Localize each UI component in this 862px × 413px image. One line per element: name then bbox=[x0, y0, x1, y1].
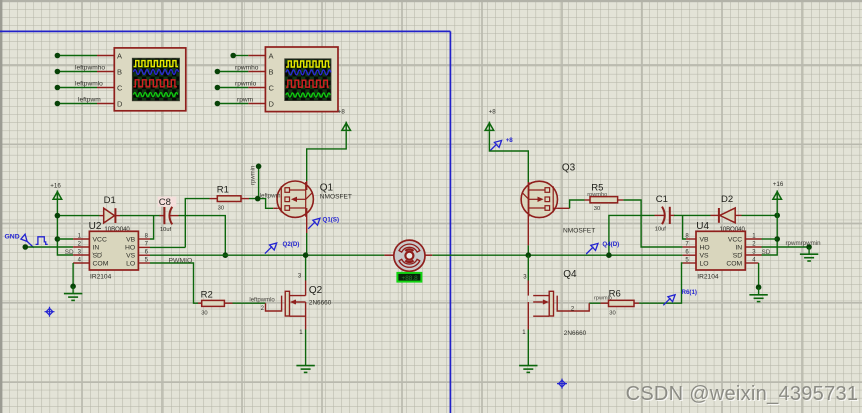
svg-text:VCC: VCC bbox=[728, 237, 742, 244]
U2 pin 3 bbox=[73, 254, 89, 256]
op-amp driver U2 IR2104 bbox=[89, 221, 139, 280]
oscilloscope right body bbox=[265, 47, 338, 112]
svg-text:VS: VS bbox=[126, 253, 136, 260]
U4 pin 5 LO bbox=[683, 262, 696, 264]
svg-text:A: A bbox=[269, 51, 274, 60]
svg-text:IN: IN bbox=[93, 245, 100, 252]
capacitor C1 bbox=[655, 194, 675, 233]
svg-text:GND: GND bbox=[5, 233, 20, 240]
wire D2 anode to +16 rail bbox=[742, 214, 778, 216]
junction dots scope left bbox=[55, 53, 61, 107]
wire +16 rail right bbox=[762, 200, 778, 255]
wire U2 COM to ground bbox=[72, 263, 74, 286]
svg-text:rpwmin: rpwmin bbox=[251, 166, 257, 185]
diode D1 10BQ040 bbox=[100, 195, 131, 233]
wire to scope B bbox=[57, 71, 97, 73]
svg-text:rpwm: rpwm bbox=[237, 96, 254, 103]
origin marker left bbox=[45, 307, 55, 317]
wire U4 IN to stub bbox=[762, 246, 810, 248]
svg-text:COM: COM bbox=[93, 261, 109, 268]
U2 pin 8 VB bbox=[138, 238, 150, 240]
wire D1 cathode to bootstrap node bbox=[120, 215, 161, 217]
transistor Q1 (NMOSFET) bbox=[277, 181, 352, 217]
U2 pin 5 LO bbox=[138, 262, 150, 264]
svg-text:D: D bbox=[117, 99, 123, 108]
wire R5 to U4 HO bbox=[623, 200, 682, 247]
svg-text:30: 30 bbox=[609, 311, 615, 317]
wire +8 to Q3 drain bbox=[489, 131, 528, 182]
svg-text:leftpwm: leftpwm bbox=[78, 97, 101, 104]
svg-text:Q3: Q3 bbox=[562, 163, 576, 174]
probe Q1(S) bbox=[308, 216, 339, 228]
svg-text:NMOSFET: NMOSFET bbox=[563, 228, 595, 235]
wire to scope A bbox=[57, 55, 97, 57]
resistor R2 bbox=[198, 289, 233, 316]
svg-text:Q4(D): Q4(D) bbox=[602, 241, 619, 248]
svg-text:D: D bbox=[269, 99, 275, 108]
svg-text:2N6660: 2N6660 bbox=[564, 330, 587, 337]
ground at IN stub bbox=[800, 247, 818, 261]
power terminal +16 (left) bbox=[50, 183, 61, 200]
svg-text:HO: HO bbox=[700, 245, 710, 252]
U4 pin 4 COM bbox=[745, 262, 758, 264]
power terminal +8 (right) bbox=[485, 108, 496, 131]
op-amp driver U4 IR2104 bbox=[696, 221, 745, 280]
svg-text:2N6660: 2N6660 bbox=[309, 299, 332, 306]
svg-text:Q4: Q4 bbox=[563, 269, 577, 280]
U4 pin 1 VCC bbox=[745, 238, 761, 240]
svg-text:Q1: Q1 bbox=[320, 183, 334, 194]
svg-text:VCC: VCC bbox=[93, 237, 107, 244]
svg-text:IR2104: IR2104 bbox=[90, 274, 112, 281]
svg-text:Q1(S): Q1(S) bbox=[323, 216, 340, 223]
wire R2 to Q2 gate bbox=[233, 302, 266, 304]
svg-text:NMOSFET: NMOSFET bbox=[320, 194, 352, 201]
motor rpm display bbox=[397, 273, 421, 282]
svg-text:D1: D1 bbox=[104, 195, 116, 206]
wire Q4 drain from main node bbox=[527, 255, 529, 280]
svg-text:B: B bbox=[117, 67, 122, 76]
svg-text:rpwmlo: rpwmlo bbox=[235, 80, 257, 87]
Q4 gate pin path bbox=[557, 296, 589, 311]
svg-text:HO: HO bbox=[125, 245, 135, 252]
diode D2 10BQ040 bbox=[711, 194, 746, 233]
svg-text:R6: R6 bbox=[609, 289, 621, 300]
U2 pin 1 bbox=[73, 238, 89, 240]
svg-text:IR2104: IR2104 bbox=[697, 274, 719, 281]
wire VCC row right bbox=[762, 238, 778, 240]
U4 pin 6 VS bbox=[683, 254, 696, 256]
transistor Q4 2N6660 bbox=[528, 269, 586, 337]
sheet border (blue) bbox=[0, 31, 450, 413]
wire HO riser to R1 bbox=[185, 199, 209, 248]
svg-text:B: B bbox=[269, 67, 274, 76]
probe R6(1) bbox=[663, 289, 697, 306]
left scope pin A bbox=[97, 55, 114, 57]
Q1 source pin + wire down to node bbox=[306, 208, 308, 233]
svg-text:+8: +8 bbox=[338, 108, 346, 115]
svg-text:VB: VB bbox=[700, 237, 710, 244]
wire R6 to Q4 gate bbox=[589, 302, 600, 304]
ground U4 COM bbox=[749, 287, 767, 301]
svg-text:Q2: Q2 bbox=[309, 285, 323, 296]
oscilloscope left body bbox=[114, 48, 186, 111]
svg-text:30: 30 bbox=[201, 311, 207, 317]
svg-text:LO: LO bbox=[126, 261, 135, 268]
wire VB riser bbox=[150, 216, 154, 239]
svg-text:leftpwmlo: leftpwmlo bbox=[75, 81, 103, 88]
Q1 drain pin bbox=[306, 181, 308, 190]
svg-text:30: 30 bbox=[594, 206, 600, 212]
right scope trace A (yellow) bbox=[286, 61, 330, 67]
ground Q4 source bbox=[519, 366, 537, 373]
wire generator to IN bbox=[25, 246, 73, 248]
U2 pin 2 bbox=[73, 246, 89, 248]
svg-text:D2: D2 bbox=[721, 194, 733, 205]
svg-text:U4: U4 bbox=[696, 221, 709, 232]
left scope trace A (yellow) bbox=[134, 61, 179, 67]
junction dot VCC row bbox=[55, 236, 61, 242]
U4 pin 7 HO bbox=[683, 246, 696, 248]
svg-text:C: C bbox=[269, 83, 275, 92]
svg-text:10uf: 10uf bbox=[160, 227, 171, 233]
wire VCC row bbox=[57, 238, 73, 240]
U2 pin 4 bbox=[73, 262, 89, 264]
left scope pin B bbox=[97, 71, 114, 73]
svg-text:leftpwmho: leftpwmho bbox=[75, 65, 105, 72]
ground Q2 source bbox=[296, 366, 314, 373]
svg-text:10uf: 10uf bbox=[655, 227, 666, 233]
wire Q4 source to ground bbox=[527, 330, 529, 366]
svg-text:+8: +8 bbox=[506, 137, 514, 144]
U2 pin 7 HO bbox=[138, 246, 150, 248]
junction dots scope right bbox=[215, 53, 236, 107]
wire HO horizontal bbox=[150, 246, 185, 248]
svg-text:R6(1): R6(1) bbox=[682, 289, 697, 296]
wire Q2 drain to VS node bbox=[305, 255, 307, 280]
wires to right scope bbox=[217, 56, 248, 104]
U4 pin 2 IN bbox=[745, 246, 761, 248]
svg-text:+88.8: +88.8 bbox=[402, 275, 419, 282]
wire to scope C bbox=[57, 87, 97, 89]
svg-text:C8: C8 bbox=[159, 197, 171, 208]
svg-text:VB: VB bbox=[126, 237, 136, 244]
svg-text:rpwmrpwmin: rpwmrpwmin bbox=[786, 240, 822, 247]
svg-text:leftpwmlo: leftpwmlo bbox=[249, 298, 275, 304]
capacitor C8 bbox=[158, 197, 179, 233]
svg-text:A: A bbox=[117, 51, 122, 60]
svg-text:SD: SD bbox=[65, 249, 74, 256]
probe Q4(D) bbox=[586, 241, 619, 254]
svg-text:VS: VS bbox=[700, 253, 710, 260]
svg-text:SD: SD bbox=[762, 249, 771, 256]
svg-text:IN: IN bbox=[735, 245, 742, 252]
junction dot D1 row bbox=[55, 213, 61, 219]
wire Q2 source to ground bbox=[305, 330, 307, 366]
left scope trace B (blue) bbox=[134, 70, 179, 75]
left scope trace C (red) bbox=[134, 80, 177, 87]
Q2 gate pin path bbox=[266, 296, 282, 311]
svg-text:COM: COM bbox=[726, 261, 742, 268]
svg-text:+16: +16 bbox=[50, 183, 61, 190]
wire +16 to D1 anode bbox=[57, 215, 99, 217]
right scope trace B (blue) bbox=[286, 70, 331, 75]
svg-text:U2: U2 bbox=[89, 221, 102, 232]
wire +16 rail left bbox=[57, 200, 73, 255]
Q3 source pin + wire to main node bbox=[527, 182, 529, 245]
svg-text:+8: +8 bbox=[489, 108, 497, 115]
U2 pin 6 VS bbox=[138, 254, 150, 256]
wire C1 right / VB riser bbox=[674, 214, 711, 216]
svg-text:R1: R1 bbox=[217, 185, 229, 196]
svg-text:rpwmho: rpwmho bbox=[235, 64, 259, 71]
probe +8 bbox=[490, 137, 514, 151]
resistor R6 bbox=[594, 289, 639, 317]
left scope pin D bbox=[97, 103, 114, 105]
svg-text:CSDN @weixin_4395731: CSDN @weixin_4395731 bbox=[626, 383, 859, 405]
svg-text:leftpwm: leftpwm bbox=[260, 193, 281, 199]
wire R1 to Q1 gate bbox=[249, 199, 273, 209]
generator GND input bbox=[5, 233, 48, 247]
wire C8 right to VS corner bbox=[179, 216, 226, 256]
wire to scope D bbox=[57, 103, 97, 105]
wire Q1 drain to +8 bbox=[307, 131, 347, 181]
svg-text:+16: +16 bbox=[773, 181, 784, 188]
probe Q2(D) bbox=[265, 241, 299, 254]
transistor Q2 2N6660 bbox=[285, 281, 332, 330]
svg-text:PWMIO: PWMIO bbox=[169, 257, 193, 264]
wire U2 LO to R2 bbox=[150, 263, 198, 303]
resistor R5 bbox=[585, 182, 624, 212]
svg-text:C: C bbox=[117, 83, 123, 92]
transistor Q3 (NMOSFET) bbox=[521, 163, 595, 235]
origin marker bottom right bbox=[557, 379, 567, 389]
power terminal +8 (left, above Q1) bbox=[338, 108, 351, 131]
svg-text:R5: R5 bbox=[591, 182, 603, 193]
wire C1 left to main node bbox=[609, 215, 655, 255]
svg-text:LO: LO bbox=[700, 261, 709, 268]
right scope trace C (red) bbox=[286, 80, 329, 87]
left scope trace D (green) bbox=[134, 93, 178, 97]
wire Q3 gate to R5 bbox=[557, 207, 570, 209]
junction dot VS node bbox=[223, 252, 229, 258]
U4 pin 3 SD bbox=[745, 254, 761, 256]
svg-text:SD: SD bbox=[93, 253, 103, 260]
wire U4 COM to ground bbox=[758, 263, 760, 287]
motor bbox=[384, 240, 432, 271]
right scope pins bbox=[248, 56, 265, 104]
svg-text:30: 30 bbox=[218, 206, 224, 212]
node leftpwm stub bbox=[258, 166, 260, 198]
left scope pin C bbox=[97, 87, 114, 89]
svg-text:R2: R2 bbox=[201, 289, 213, 300]
main wire right of motor bbox=[432, 254, 682, 256]
resistor R1 bbox=[210, 185, 250, 212]
power terminal +16 (right) bbox=[773, 181, 784, 200]
U4 pin 8 VB bbox=[686, 238, 696, 240]
right scope trace D (green) bbox=[286, 93, 330, 97]
svg-text:SD: SD bbox=[733, 253, 743, 260]
svg-text:C1: C1 bbox=[656, 194, 668, 205]
wire U4 LO to R6 bbox=[639, 263, 683, 303]
ground U2 COM bbox=[64, 286, 82, 300]
svg-text:Q2(D): Q2(D) bbox=[283, 241, 300, 248]
main wire VS net bbox=[150, 254, 384, 256]
